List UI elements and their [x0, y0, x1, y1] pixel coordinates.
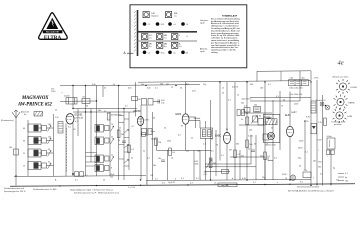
- svg-text:EF89: EF89: [176, 114, 182, 116]
- wire vert x91: [90, 109, 92, 163]
- svg-text:245: 245: [313, 161, 316, 163]
- svg-text:5k: 5k: [241, 119, 243, 121]
- svg-text:Ug 6,3V: Ug 6,3V: [168, 182, 176, 184]
- svg-text:460: 460: [98, 110, 101, 112]
- svg-text:50k: 50k: [121, 134, 124, 136]
- wire stair rail 1: [205, 163, 251, 165]
- svg-text:81: 81: [74, 129, 76, 131]
- svg-text:6,3: 6,3: [162, 182, 165, 184]
- svg-text:0,1: 0,1: [155, 88, 158, 90]
- svg-text:0,05: 0,05: [192, 91, 196, 93]
- wire vert x124: [123, 109, 125, 181]
- svg-text:1k: 1k: [237, 95, 239, 97]
- svg-text:300: 300: [236, 144, 239, 146]
- wire mid rail 2: [73, 111, 135, 113]
- svg-text:0,1: 0,1: [305, 152, 308, 154]
- svg-text:0,05: 0,05: [147, 87, 151, 89]
- wire vert x289 hi: [289, 92, 291, 127]
- svg-text:e: e: [277, 182, 278, 184]
- svg-text:150: 150: [48, 136, 51, 138]
- tube layout box: [124, 5, 247, 68]
- svg-text:50: 50: [104, 87, 106, 89]
- svg-text:0,1 5k: 0,1 5k: [248, 135, 253, 137]
- svg-text:ELTRA: ELTRA: [44, 35, 62, 41]
- tube V5 EL84: [285, 112, 296, 137]
- svg-text:81: 81: [181, 126, 183, 128]
- bottom mid flat box: [218, 183, 237, 187]
- svg-text:20: 20: [171, 158, 173, 160]
- svg-text:50: 50: [180, 88, 182, 90]
- switch arrows mid: [124, 130, 129, 164]
- wire rail bottom left: [14, 175, 146, 178]
- tube V1 ECH81: [66, 108, 86, 131]
- nf labels: [110, 161, 207, 179]
- svg-text:25: 25: [23, 153, 25, 155]
- svg-text:0,1: 0,1: [147, 158, 150, 160]
- IF coil row x95 r4: [95, 165, 112, 172]
- svg-text:50k: 50k: [241, 103, 244, 105]
- svg-text:Ansicht von unten: Ansicht von unten: [333, 76, 349, 79]
- svg-text:2x500: 2x500: [64, 96, 70, 98]
- svg-text:220V~: 220V~: [282, 174, 288, 176]
- svg-text:10: 10: [164, 128, 166, 130]
- coil tie stubs: [86, 152, 97, 166]
- svg-text:6,3: 6,3: [300, 182, 303, 184]
- svg-text:Spannungen bei 220 V~: Spannungen bei 220 V~: [4, 191, 27, 193]
- svg-text:225V: 225V: [145, 120, 150, 122]
- wire heater rail: [205, 171, 230, 173]
- svg-text:Cu: Cu: [164, 37, 167, 39]
- wire vert x289 low: [289, 137, 291, 181]
- svg-text:0,1: 0,1: [203, 144, 206, 146]
- wire vert x227: [226, 82, 228, 133]
- socket U3: [333, 108, 354, 123]
- svg-text:25: 25: [131, 158, 133, 160]
- svg-text:100: 100: [345, 181, 348, 183]
- svg-text:1,5k: 1,5k: [55, 117, 59, 119]
- svg-text:25μ: 25μ: [260, 156, 263, 158]
- output transformer T4: [289, 78, 319, 96]
- resistor R5: [234, 150, 240, 158]
- loudspeaker LS1 assembly: [264, 114, 280, 146]
- svg-text:0,3: 0,3: [181, 178, 184, 180]
- wire vert x273: [272, 100, 274, 161]
- svg-text:Fassungs-Seite: Fassungs-Seite: [332, 120, 347, 123]
- svg-text:25μ: 25μ: [203, 84, 206, 86]
- resistor R8: [318, 118, 326, 126]
- svg-text:80: 80: [48, 149, 50, 151]
- svg-text:250V: 250V: [299, 141, 304, 143]
- svg-text:25: 25: [222, 93, 224, 95]
- svg-text:30: 30: [283, 99, 285, 101]
- capacitor C6 electrolytic: [326, 136, 335, 155]
- ELTRA logo: [39, 13, 68, 41]
- svg-text:0,1: 0,1: [228, 100, 231, 102]
- svg-text:1k: 1k: [119, 128, 121, 130]
- svg-text:240: 240: [48, 124, 51, 126]
- wire rail B top: [138, 81, 311, 83]
- capacitor C3: [118, 140, 126, 142]
- svg-text:460kHz: 460kHz: [194, 118, 201, 120]
- wire vert x210.6: [210, 100, 212, 180]
- svg-text:Skalenl. 7V: Skalenl. 7V: [316, 100, 326, 102]
- row3 socket squares: [142, 34, 178, 40]
- wire rail bottom mid: [146, 179, 311, 180]
- svg-text:0,1: 0,1: [85, 175, 88, 177]
- coil row numbers: [23, 128, 25, 168]
- small box under V2: [142, 133, 148, 138]
- wire stair rail 3: [230, 157, 273, 180]
- text block: [211, 14, 240, 54]
- svg-text:0,1: 0,1: [75, 121, 78, 123]
- svg-text:0,5: 0,5: [178, 135, 181, 137]
- svg-text:30: 30: [23, 141, 25, 143]
- bottom caption left: [4, 187, 27, 193]
- detector cluster: [142, 99, 165, 106]
- svg-text:0,1: 0,1: [155, 179, 158, 181]
- wire mid rail 1: [73, 108, 137, 110]
- wire vert x185.6: [185, 82, 187, 114]
- svg-text:0,1: 0,1: [268, 84, 271, 86]
- svg-text:275V: 275V: [314, 78, 319, 80]
- svg-text:2M: 2M: [166, 84, 169, 86]
- svg-text:110V~: 110V~: [51, 91, 57, 93]
- svg-text:0,1: 0,1: [68, 127, 71, 129]
- wire vert x265: [264, 82, 266, 180]
- heater labels: [168, 178, 247, 184]
- wire vert x141: [140, 105, 142, 180]
- wire tube V3 anode leads: [189, 117, 206, 128]
- coil L4 row: [28, 161, 54, 169]
- wire stair rail 2: [205, 166, 256, 168]
- resistor R9 NTC: [303, 170, 311, 178]
- svg-text:C30a C40a C60: C30a C40a C60: [289, 87, 303, 89]
- svg-text:TONABGLAUF: TONABGLAUF: [222, 14, 238, 17]
- svg-text:Ratio: Ratio: [151, 130, 155, 133]
- svg-text:2k: 2k: [55, 110, 57, 112]
- svg-text:150: 150: [186, 151, 189, 153]
- svg-text:0,1: 0,1: [276, 96, 279, 98]
- svg-text:0,05 5k: 0,05 5k: [232, 86, 238, 88]
- svg-text:0,2: 0,2: [125, 106, 128, 108]
- svg-text:5k: 5k: [271, 128, 273, 130]
- coil L3 row: [28, 149, 54, 157]
- svg-text:0,1: 0,1: [320, 174, 323, 176]
- svg-text:1M: 1M: [229, 150, 232, 152]
- power plug: [282, 174, 296, 181]
- svg-text:gesehen: gesehen: [334, 124, 342, 126]
- wire vert x331: [330, 150, 332, 186]
- svg-text:0,1: 0,1: [75, 179, 78, 181]
- svg-text:80: 80: [226, 129, 228, 131]
- svg-text:0,15: 0,15: [204, 174, 208, 176]
- svg-text:4e: 4e: [338, 60, 344, 67]
- svg-text:10k: 10k: [160, 83, 163, 85]
- svg-text:70: 70: [111, 124, 113, 126]
- wire vert x300: [299, 71, 301, 101]
- resistor R2: [128, 145, 134, 153]
- svg-text:Banane: Banane: [152, 16, 160, 18]
- svg-text:4μ: 4μ: [345, 177, 347, 179]
- svg-text:0,2: 0,2: [267, 156, 270, 158]
- svg-text:stellung: stellung: [211, 51, 218, 54]
- svg-text:10k: 10k: [141, 84, 144, 86]
- tube V4 EABC80: [215, 129, 231, 144]
- socket U1: [336, 79, 358, 94]
- wire vert x205.6: [205, 138, 207, 180]
- svg-text:2k: 2k: [104, 111, 106, 113]
- wire vert x311: [310, 82, 312, 186]
- row2 dots: [143, 22, 185, 26]
- svg-text:0,05: 0,05: [128, 88, 132, 90]
- svg-text:5k: 5k: [246, 113, 248, 115]
- resistor R7: [264, 152, 270, 160]
- svg-text:1M: 1M: [213, 163, 216, 165]
- svg-text:5k: 5k: [143, 151, 145, 153]
- wire vert x135.6: [135, 82, 137, 117]
- power labels: [299, 140, 323, 169]
- antenna: [12, 110, 30, 118]
- svg-text:2k: 2k: [146, 135, 148, 137]
- wire vert x256: [255, 135, 257, 180]
- svg-text:50μ: 50μ: [298, 158, 301, 160]
- svg-text:0,5: 0,5: [186, 83, 189, 85]
- potentiometer P1: [207, 158, 217, 168]
- capacitor C4: [158, 158, 165, 161]
- svg-text:60: 60: [153, 118, 155, 120]
- svg-text:1M: 1M: [158, 142, 161, 144]
- wire tick x281 top: [280, 71, 282, 81]
- svg-text:ECH81: ECH81: [351, 87, 358, 89]
- svg-text:2k: 2k: [191, 138, 193, 140]
- svg-text:0,5: 0,5: [237, 154, 240, 156]
- left margin notes: [1, 119, 14, 188]
- svg-text:Gerätenummer ab Werk: Gerätenummer ab Werk: [297, 186, 320, 189]
- svg-text:5k: 5k: [113, 84, 115, 86]
- wire ht rail 2: [250, 100, 300, 102]
- choke Dr1: [311, 101, 316, 113]
- svg-text:30: 30: [259, 115, 261, 117]
- IF coil row x95 r1: [95, 124, 114, 132]
- svg-text:8: 8: [111, 168, 112, 170]
- wire vert x216: [215, 130, 217, 176]
- svg-text:50: 50: [254, 144, 256, 146]
- svg-text:B250: B250: [304, 121, 308, 123]
- svg-text:EABC: EABC: [215, 135, 222, 138]
- svg-text:6,3V 0,3A: 6,3V 0,3A: [75, 116, 84, 119]
- svg-text:25: 25: [171, 87, 173, 89]
- bottom caption mid: [33, 187, 135, 195]
- svg-text:b: b: [175, 179, 176, 181]
- tube socket diagrams: [332, 76, 358, 126]
- speckle labels: [55, 83, 339, 181]
- capacitor on antenna lead: [9, 147, 19, 155]
- wire label stub 220V: [51, 88, 64, 94]
- svg-text:100: 100: [249, 130, 252, 132]
- wire vert x317: [316, 80, 318, 186]
- svg-text:0,1: 0,1: [196, 178, 199, 180]
- svg-text:70: 70: [281, 106, 283, 108]
- svg-text:c: c: [200, 179, 201, 181]
- wire vert x194: [193, 150, 195, 180]
- tube V2 EBF80: [132, 111, 150, 128]
- svg-text:70: 70: [216, 145, 218, 147]
- resistor R6: [246, 140, 253, 148]
- svg-text:1 u 2 Ω: 1 u 2 Ω: [128, 187, 135, 189]
- wire vert x247: [246, 82, 248, 180]
- wire vert x147: [146, 105, 148, 186]
- svg-text:50k: 50k: [153, 165, 156, 167]
- wire vert x28: [27, 120, 29, 176]
- wire vert x103: [102, 86, 104, 98]
- rectifier G1: [304, 121, 317, 134]
- coupling box: [132, 97, 141, 101]
- svg-text:5k: 5k: [103, 179, 105, 181]
- svg-text:15: 15: [23, 166, 25, 168]
- svg-text:1k: 1k: [222, 88, 224, 90]
- coil L1 row: [28, 124, 54, 132]
- svg-text:75Ω: 75Ω: [318, 162, 322, 164]
- bottom caption right: [288, 186, 334, 193]
- svg-text:0,1: 0,1: [221, 155, 224, 157]
- svg-text:Kondensatorwerte in pF · Wi: Kondensatorwerte in pF · Widerstandswert…: [74, 192, 119, 195]
- svg-text:Gegentaktgeräte regelt i. Geh: Gegentaktgeräte regelt i. Gehäuse bei Ch…: [70, 189, 113, 192]
- wire vert x235: [234, 82, 236, 180]
- wire vert x227 low: [226, 144, 228, 181]
- wire vert x78: [77, 109, 79, 137]
- wire vert x220: [219, 82, 221, 161]
- cluster box left: [142, 129, 153, 135]
- wire vert x73 low: [72, 123, 74, 176]
- wire vert x167.5: [167, 150, 169, 180]
- svg-text:8k: 8k: [211, 139, 213, 141]
- svg-text:2x50μ: 2x50μ: [327, 136, 332, 138]
- svg-text:(Ferritantenne): (Ferritantenne): [1, 119, 14, 122]
- wire vert x73: [72, 86, 74, 109]
- svg-text:Sperrkreis: Sperrkreis: [242, 99, 253, 101]
- wire vert x280: [279, 91, 281, 150]
- svg-text:25μ: 25μ: [262, 177, 265, 179]
- wire ht rail 1: [250, 97, 311, 99]
- svg-text:50k: 50k: [249, 144, 252, 146]
- ladder rungs: [119, 116, 129, 167]
- wire vert x200b: [199, 150, 201, 180]
- wire rail C top right: [257, 71, 311, 82]
- svg-text:5k: 5k: [118, 140, 120, 142]
- resistor R1: [117, 130, 124, 138]
- capacitor C5: [248, 149, 255, 152]
- wire vert x96.5: [96, 86, 98, 177]
- wire rail A top: [60, 85, 200, 86]
- svg-text:0,05: 0,05: [92, 84, 96, 86]
- svg-text:0,1: 0,1: [244, 106, 247, 108]
- wire vert x66: [65, 124, 67, 177]
- svg-text:0,3: 0,3: [172, 152, 175, 154]
- svg-text:4μ: 4μ: [333, 168, 335, 170]
- chassis bars horizontal: [138, 31, 198, 33]
- svg-text:BAU-QUALITÄT: BAU-QUALITÄT: [46, 31, 60, 34]
- svg-text:EBF80: EBF80: [349, 103, 356, 105]
- svg-text:Drehkondensator und: Drehkondensator und: [4, 187, 25, 190]
- svg-text:100: 100: [318, 167, 321, 169]
- svg-text:0,1: 0,1: [253, 182, 256, 184]
- wire vert x129: [128, 112, 130, 170]
- pot with arrow: [251, 116, 258, 124]
- wire vert x240: [239, 150, 241, 180]
- ferrite antenna: [24, 112, 43, 117]
- svg-text:20k: 20k: [241, 156, 244, 158]
- row5 dots: [143, 51, 185, 55]
- svg-text:300: 300: [250, 84, 253, 86]
- svg-text:30: 30: [86, 106, 88, 108]
- svg-text:MAGNAVOX: MAGNAVOX: [21, 96, 49, 101]
- svg-text:AW-PRINCE 652: AW-PRINCE 652: [17, 103, 53, 108]
- tuning gang dashed link: [67, 128, 88, 177]
- IF coil row x95 r2: [95, 137, 114, 145]
- svg-text:100k: 100k: [167, 141, 171, 143]
- coupling box C9: [222, 169, 229, 174]
- svg-text:Drehkondensator 3 x 490: Drehkondensator 3 x 490: [33, 188, 57, 191]
- svg-text:30: 30: [48, 161, 50, 163]
- svg-text:0,1: 0,1: [294, 112, 297, 114]
- IF coil row x95 r3: [95, 155, 114, 163]
- svg-text:15k: 15k: [110, 177, 113, 179]
- svg-text:d: d: [232, 178, 233, 180]
- small box mid: [263, 134, 269, 140]
- tube V3 ECH81b: [176, 114, 190, 128]
- svg-text:1,2k: 1,2k: [318, 122, 322, 124]
- svg-text:Cu: Cu: [149, 37, 152, 39]
- wire vert x85.5: [85, 86, 87, 177]
- svg-text:0,3: 0,3: [274, 158, 277, 160]
- wire vert x118.6: [118, 86, 120, 181]
- svg-text:Cu: Cu: [179, 46, 182, 48]
- oscillator coil tall box: [55, 117, 63, 133]
- row1 socket squares: [143, 12, 172, 18]
- svg-text:0,1: 0,1: [132, 126, 135, 128]
- wire vert x185.6 low: [185, 124, 187, 150]
- svg-text:80: 80: [139, 99, 141, 101]
- svg-text:ECH 81: ECH 81: [75, 115, 84, 117]
- row4 socket squares: [142, 42, 178, 48]
- wire vert x251: [250, 135, 252, 164]
- wire nf rail: [151, 139, 211, 150]
- wire vert x110: [109, 112, 111, 176]
- svg-text:225V: 225V: [294, 104, 299, 106]
- svg-text:30k: 30k: [197, 151, 200, 153]
- svg-text:12: 12: [111, 155, 113, 157]
- svg-text:+O: +O: [173, 24, 176, 26]
- right edge ticks: [338, 173, 348, 182]
- resistor R4: [169, 148, 175, 156]
- svg-text:EBF80: EBF80: [134, 111, 142, 113]
- svg-text:10k: 10k: [158, 158, 161, 160]
- capacitor block C1 C2: [60, 96, 97, 104]
- wire bottom rail: [10, 184, 355, 186]
- socket U2: [334, 95, 356, 110]
- svg-text:245V: 245V: [298, 148, 303, 150]
- svg-text:1k: 1k: [266, 144, 268, 146]
- wire vert x305: [304, 120, 306, 170]
- resistor R3: [155, 138, 162, 146]
- svg-text:C30: C30: [290, 78, 293, 80]
- svg-text:EL84: EL84: [285, 115, 291, 117]
- svg-text:0,1: 0,1: [131, 149, 134, 151]
- wire vert x325: [322, 95, 324, 186]
- svg-text:10k: 10k: [254, 105, 257, 107]
- chassis bar left: [137, 10, 139, 56]
- IF transformer T3: [201, 128, 213, 139]
